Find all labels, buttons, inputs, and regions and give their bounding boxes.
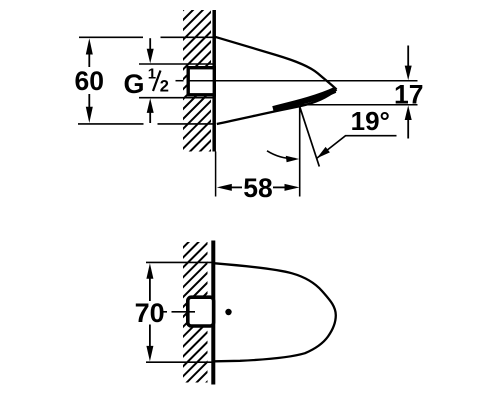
svg-text:58: 58 xyxy=(243,173,272,203)
svg-text:17: 17 xyxy=(394,79,423,109)
svg-text:19°: 19° xyxy=(351,106,390,136)
svg-text:2: 2 xyxy=(160,77,169,95)
svg-text:G: G xyxy=(124,69,145,99)
svg-text:60: 60 xyxy=(75,66,104,96)
svg-text:1: 1 xyxy=(148,65,156,82)
svg-text:70: 70 xyxy=(135,298,165,328)
